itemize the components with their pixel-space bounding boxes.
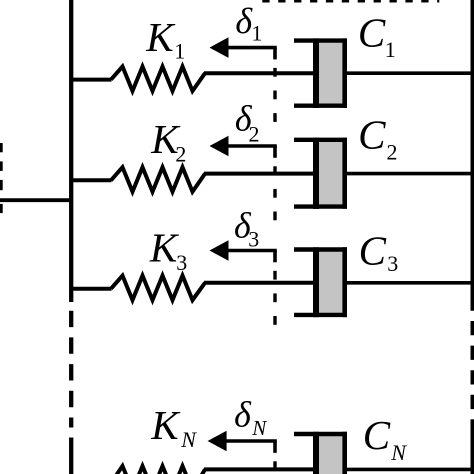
damper C3 cylinder	[294, 247, 347, 317]
spring KN (cut off at bottom edge)	[111, 466, 205, 474]
svg-text:3: 3	[248, 227, 259, 252]
dashed gap reference line N	[273, 461, 276, 470]
svg-text:2: 2	[387, 140, 398, 165]
spring K3	[111, 276, 205, 301]
damper CN cylinder	[294, 432, 347, 474]
svg-text:C: C	[359, 227, 387, 273]
dashed gap reference line 1	[273, 68, 276, 122]
svg-text:N: N	[251, 416, 267, 440]
svg-text:δ: δ	[234, 394, 252, 434]
svg-text:K: K	[150, 402, 181, 448]
wire spring K1 to damper C1 piston	[204, 71, 314, 75]
left edge dashed line (cropped external member)	[0, 143, 3, 213]
wire from left edge to left bus	[0, 198, 73, 202]
spring K1	[111, 67, 205, 92]
wire spring KN to damper CN piston	[204, 467, 314, 471]
svg-text:K: K	[145, 14, 176, 60]
left bus bar (support rail, solid then dashed continuation)	[69, 0, 73, 474]
damper C3 piston plate	[313, 247, 319, 317]
damper C1 piston plate	[313, 38, 319, 108]
gap arrow delta1	[210, 37, 277, 59]
wire damper C2 to right bus	[347, 172, 472, 176]
wire spring K2 to damper C2 piston	[204, 172, 314, 176]
svg-text:1: 1	[385, 37, 396, 62]
wire damper CN to right bus	[347, 468, 472, 472]
svg-text:C: C	[358, 112, 386, 158]
wire left bus to spring K2	[71, 178, 112, 182]
svg-text:N: N	[180, 427, 197, 452]
wire damper C1 to right bus	[347, 71, 472, 75]
damper C2 cylinder	[294, 138, 347, 209]
top dashed boundary line	[262, 0, 439, 2]
gap arrow delta2	[210, 136, 277, 158]
wire left bus to spring K1	[71, 78, 112, 82]
svg-text:1: 1	[251, 21, 262, 46]
dashed gap reference line 2	[273, 166, 276, 220]
damper CN piston plate	[313, 432, 319, 474]
damper C1 cylinder	[294, 38, 347, 108]
damper C2 piston plate	[313, 138, 319, 209]
svg-text:C: C	[363, 412, 391, 458]
wire spring K3 to damper C3 piston	[204, 281, 314, 285]
spring K2	[111, 167, 205, 192]
svg-text:K: K	[149, 225, 180, 271]
wire damper C3 to right bus	[347, 281, 472, 285]
svg-text:1: 1	[174, 38, 185, 63]
gap arrow deltaN	[208, 431, 277, 453]
wire left bus to spring K3	[71, 287, 112, 291]
svg-text:3: 3	[176, 250, 187, 275]
right bus bar (support rail, solid then dashed continuation)	[470, 0, 474, 474]
svg-text:2: 2	[175, 141, 186, 166]
svg-text:2: 2	[249, 121, 260, 146]
dashed gap reference line 3	[273, 271, 276, 325]
gap arrow delta3	[210, 240, 277, 262]
svg-text:3: 3	[387, 251, 398, 276]
svg-text:C: C	[358, 10, 386, 56]
svg-text:N: N	[390, 440, 407, 465]
